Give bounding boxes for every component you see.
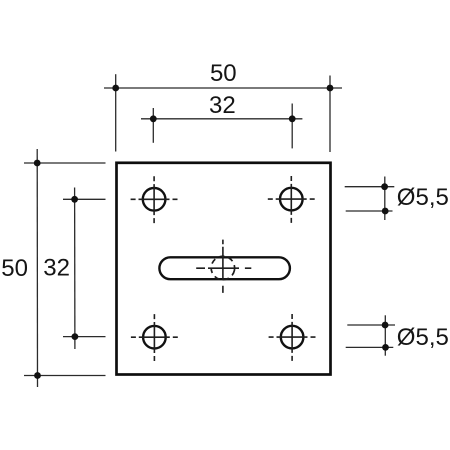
slot centerline horizontal [196,267,251,269]
hole TL [143,188,166,211]
dim 50 left: dimension line [36,149,38,387]
dim dia 5,5 top-right: dot upper [381,183,388,190]
dim dia 5,5 bottom-right: dot lower [382,344,389,351]
dim dia 5,5 top-right: leader line lower [346,210,393,212]
dim 32 top: dot left [150,115,157,122]
hole BR centerline vertical [291,314,293,361]
dim dia 5,5 bottom-right: dimension line [384,315,386,355]
hole BR centerline horizontal [269,336,316,338]
dim 50 top: dot left [112,85,119,92]
dim 32 left: extension line top [63,198,106,200]
dim 32 top: dot right [289,115,296,122]
dim 50 left: extension line bottom [24,375,106,377]
dim 32 top: extension line left [152,108,154,143]
dim 50 top: dot right [327,85,334,92]
svg-text:Ø5,5: Ø5,5 [397,184,449,211]
dim dia 5,5 top-right: dimension line [384,177,386,221]
hole TR centerline horizontal [268,198,315,200]
dim 50 left: dot bottom [34,372,41,379]
slot centerline vertical [222,240,224,293]
hole BR [281,326,304,349]
dim 50 left: extension line top [24,162,106,164]
hole TL centerline horizontal [131,198,178,200]
hole BL centerline horizontal [131,336,178,338]
svg-text:Ø5,5: Ø5,5 [397,324,449,351]
dim dia 5,5 bottom-right: leader line lower [346,346,394,348]
dim 50 top: dimension line [104,87,342,89]
svg-text:50: 50 [210,60,237,87]
dim dia 5,5 top-right: dot lower [382,208,389,215]
svg-text:32: 32 [209,92,236,119]
hole TR [280,188,303,211]
dim 32 left: dot bottom [72,333,79,340]
plate outline [117,163,331,375]
dim 50 top: extension line right [329,76,331,153]
dim 32 top: dimension line [141,118,302,120]
dim 50 top: extension line left [115,74,117,151]
dim 32 left: dot top [71,196,78,203]
dim 32 left: dimension line [74,188,76,350]
dim dia 5,5 bottom-right: dot upper [382,322,389,329]
slot hidden circle (dashed) [209,254,237,282]
slot [159,257,290,279]
hole TR centerline vertical [290,176,292,223]
dim dia 5,5 bottom-right: leader line upper [347,324,395,326]
dim 32 left: extension line bottom [63,336,106,338]
svg-text:32: 32 [43,255,70,282]
hole TL centerline vertical [153,176,155,223]
dim 32 top: extension line right [291,104,293,149]
dim dia 5,5 top-right: leader line upper [345,186,395,188]
hole BL [143,326,166,349]
svg-text:50: 50 [1,255,28,282]
hole BL centerline vertical [153,314,155,361]
dim 50 left: dot top [34,160,41,167]
